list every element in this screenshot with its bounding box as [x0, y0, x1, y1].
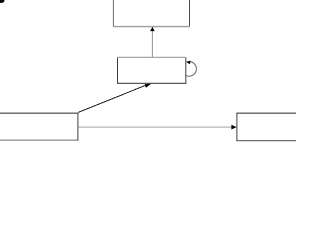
wire: vertical transition from middle box up to top box — [151, 31, 153, 58]
arrowhead at middle box bottom — [145, 84, 152, 88]
arrowhead right at bottom-right box — [231, 125, 236, 130]
state box top (cut off at top edge) — [113, 0, 190, 27]
state box bottom-left (cut off at left edge) — [0, 113, 78, 141]
wire: horizontal transition bottom-left box to bottom-right box — [78, 126, 232, 128]
arrowhead of self-loop pointing into box edge — [186, 61, 191, 65]
self-loop on middle box right edge — [186, 62, 197, 77]
state box middle — [117, 57, 186, 84]
arrowhead up at top box — [150, 27, 155, 31]
state box bottom-right (cut off at right edge) — [236, 113, 296, 141]
wire: diagonal transition from bottom-left box corner to middle box — [78, 85, 146, 112]
black corner blob (cut-off glyph) top-left — [0, 0, 5, 3]
